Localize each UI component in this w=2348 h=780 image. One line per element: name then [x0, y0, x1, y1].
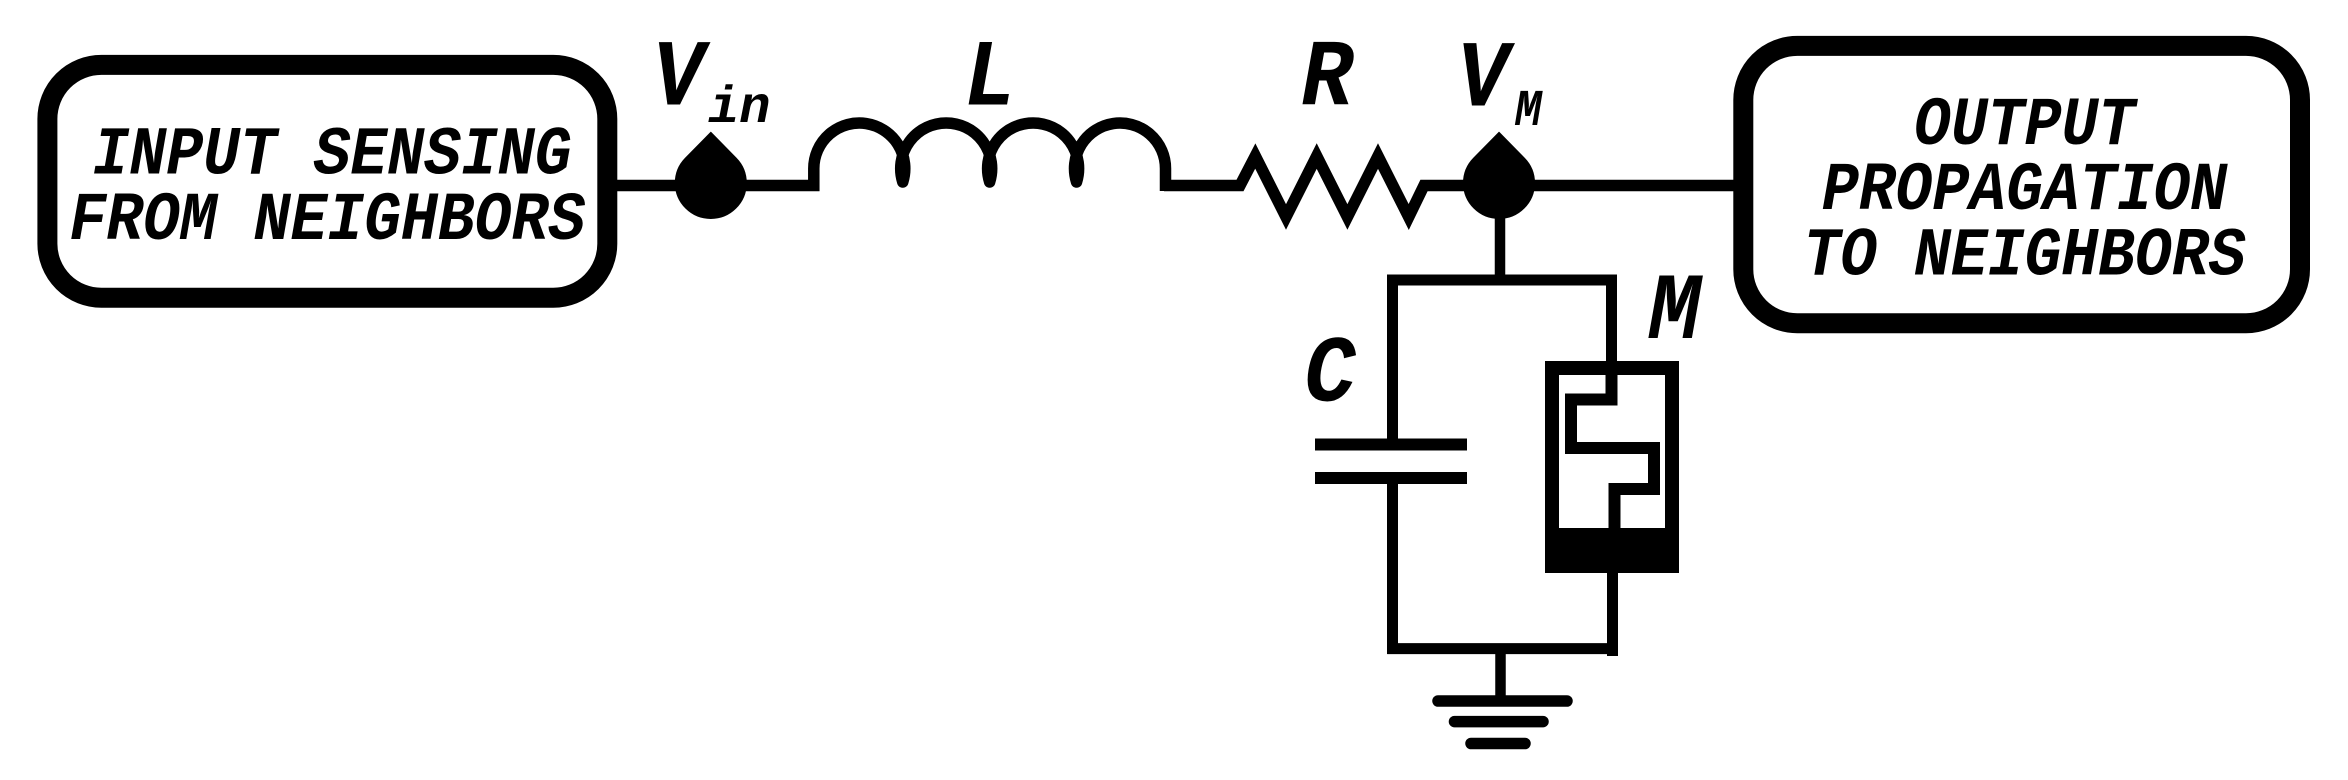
svg-text:C: C	[1304, 322, 1356, 430]
node Vin (drop marker)	[676, 133, 746, 218]
resistor R	[1164, 156, 1505, 217]
svg-text:V: V	[1457, 27, 1516, 135]
svg-text:M: M	[1514, 83, 1543, 141]
wire node VM down to parallel network	[1495, 186, 1506, 285]
wire to ground	[1495, 644, 1506, 701]
wire from node Vin to inductor L	[710, 180, 820, 192]
inductor L	[814, 123, 1166, 191]
capacitor C top lead	[1387, 275, 1398, 440]
wire node VM to output box	[1498, 180, 1735, 192]
output box	[1743, 46, 2300, 323]
svg-text:V: V	[652, 26, 711, 134]
input box	[47, 65, 607, 298]
svg-text:in: in	[708, 79, 770, 138]
node VM (drop marker)	[1464, 133, 1534, 218]
wire from input box to node Vin	[615, 180, 712, 192]
svg-text:L: L	[964, 26, 1016, 134]
svg-text:R: R	[1301, 26, 1354, 134]
capacitor C plates	[1315, 439, 1467, 451]
svg-text:TO NEIGHBORS: TO NEIGHBORS	[1803, 217, 2245, 295]
memristor M	[1545, 368, 1679, 573]
svg-text:M: M	[1648, 260, 1704, 368]
ground	[1438, 701, 1567, 744]
bottom wire of parallel network	[1387, 643, 1617, 654]
memristor M top lead	[1606, 275, 1617, 369]
svg-text:FROM NEIGHBORS: FROM NEIGHBORS	[69, 182, 585, 260]
top wire of parallel network	[1387, 275, 1616, 286]
capacitor C bottom lead	[1387, 484, 1398, 654]
memristor M bottom lead	[1607, 566, 1618, 656]
